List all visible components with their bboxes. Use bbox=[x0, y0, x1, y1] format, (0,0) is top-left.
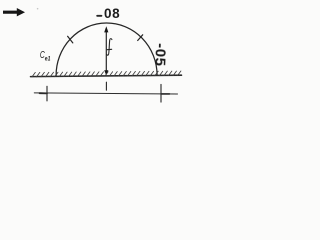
span dimension line bbox=[34, 93, 177, 94]
svg-text:-05: -05 bbox=[151, 43, 169, 67]
ground hatching bbox=[32, 71, 181, 77]
extension tick left bbox=[46, 86, 48, 101]
paper background bbox=[0, 0, 186, 106]
svg-text:e1: e1 bbox=[45, 55, 51, 62]
f arrowhead top bbox=[104, 26, 108, 32]
label -0,8 minus sign bbox=[97, 15, 101, 17]
centerline dash below ground bbox=[105, 82, 107, 90]
arc quarter tick right bbox=[138, 35, 143, 41]
dimension serif left bbox=[40, 92, 48, 94]
label f (script) bbox=[107, 39, 112, 56]
speck bbox=[37, 8, 39, 10]
vault arc bbox=[56, 23, 157, 76]
svg-text:08: 08 bbox=[104, 6, 120, 21]
f dimension line bbox=[105, 32, 107, 71]
label f crossbar bbox=[107, 48, 112, 50]
dimension serif right bbox=[161, 93, 170, 95]
arc quarter tick left bbox=[68, 36, 73, 43]
f arrowhead bottom bbox=[104, 70, 108, 75]
extension tick right bbox=[160, 84, 162, 102]
ground line bbox=[31, 75, 182, 76]
wind direction arrow bbox=[3, 8, 25, 16]
